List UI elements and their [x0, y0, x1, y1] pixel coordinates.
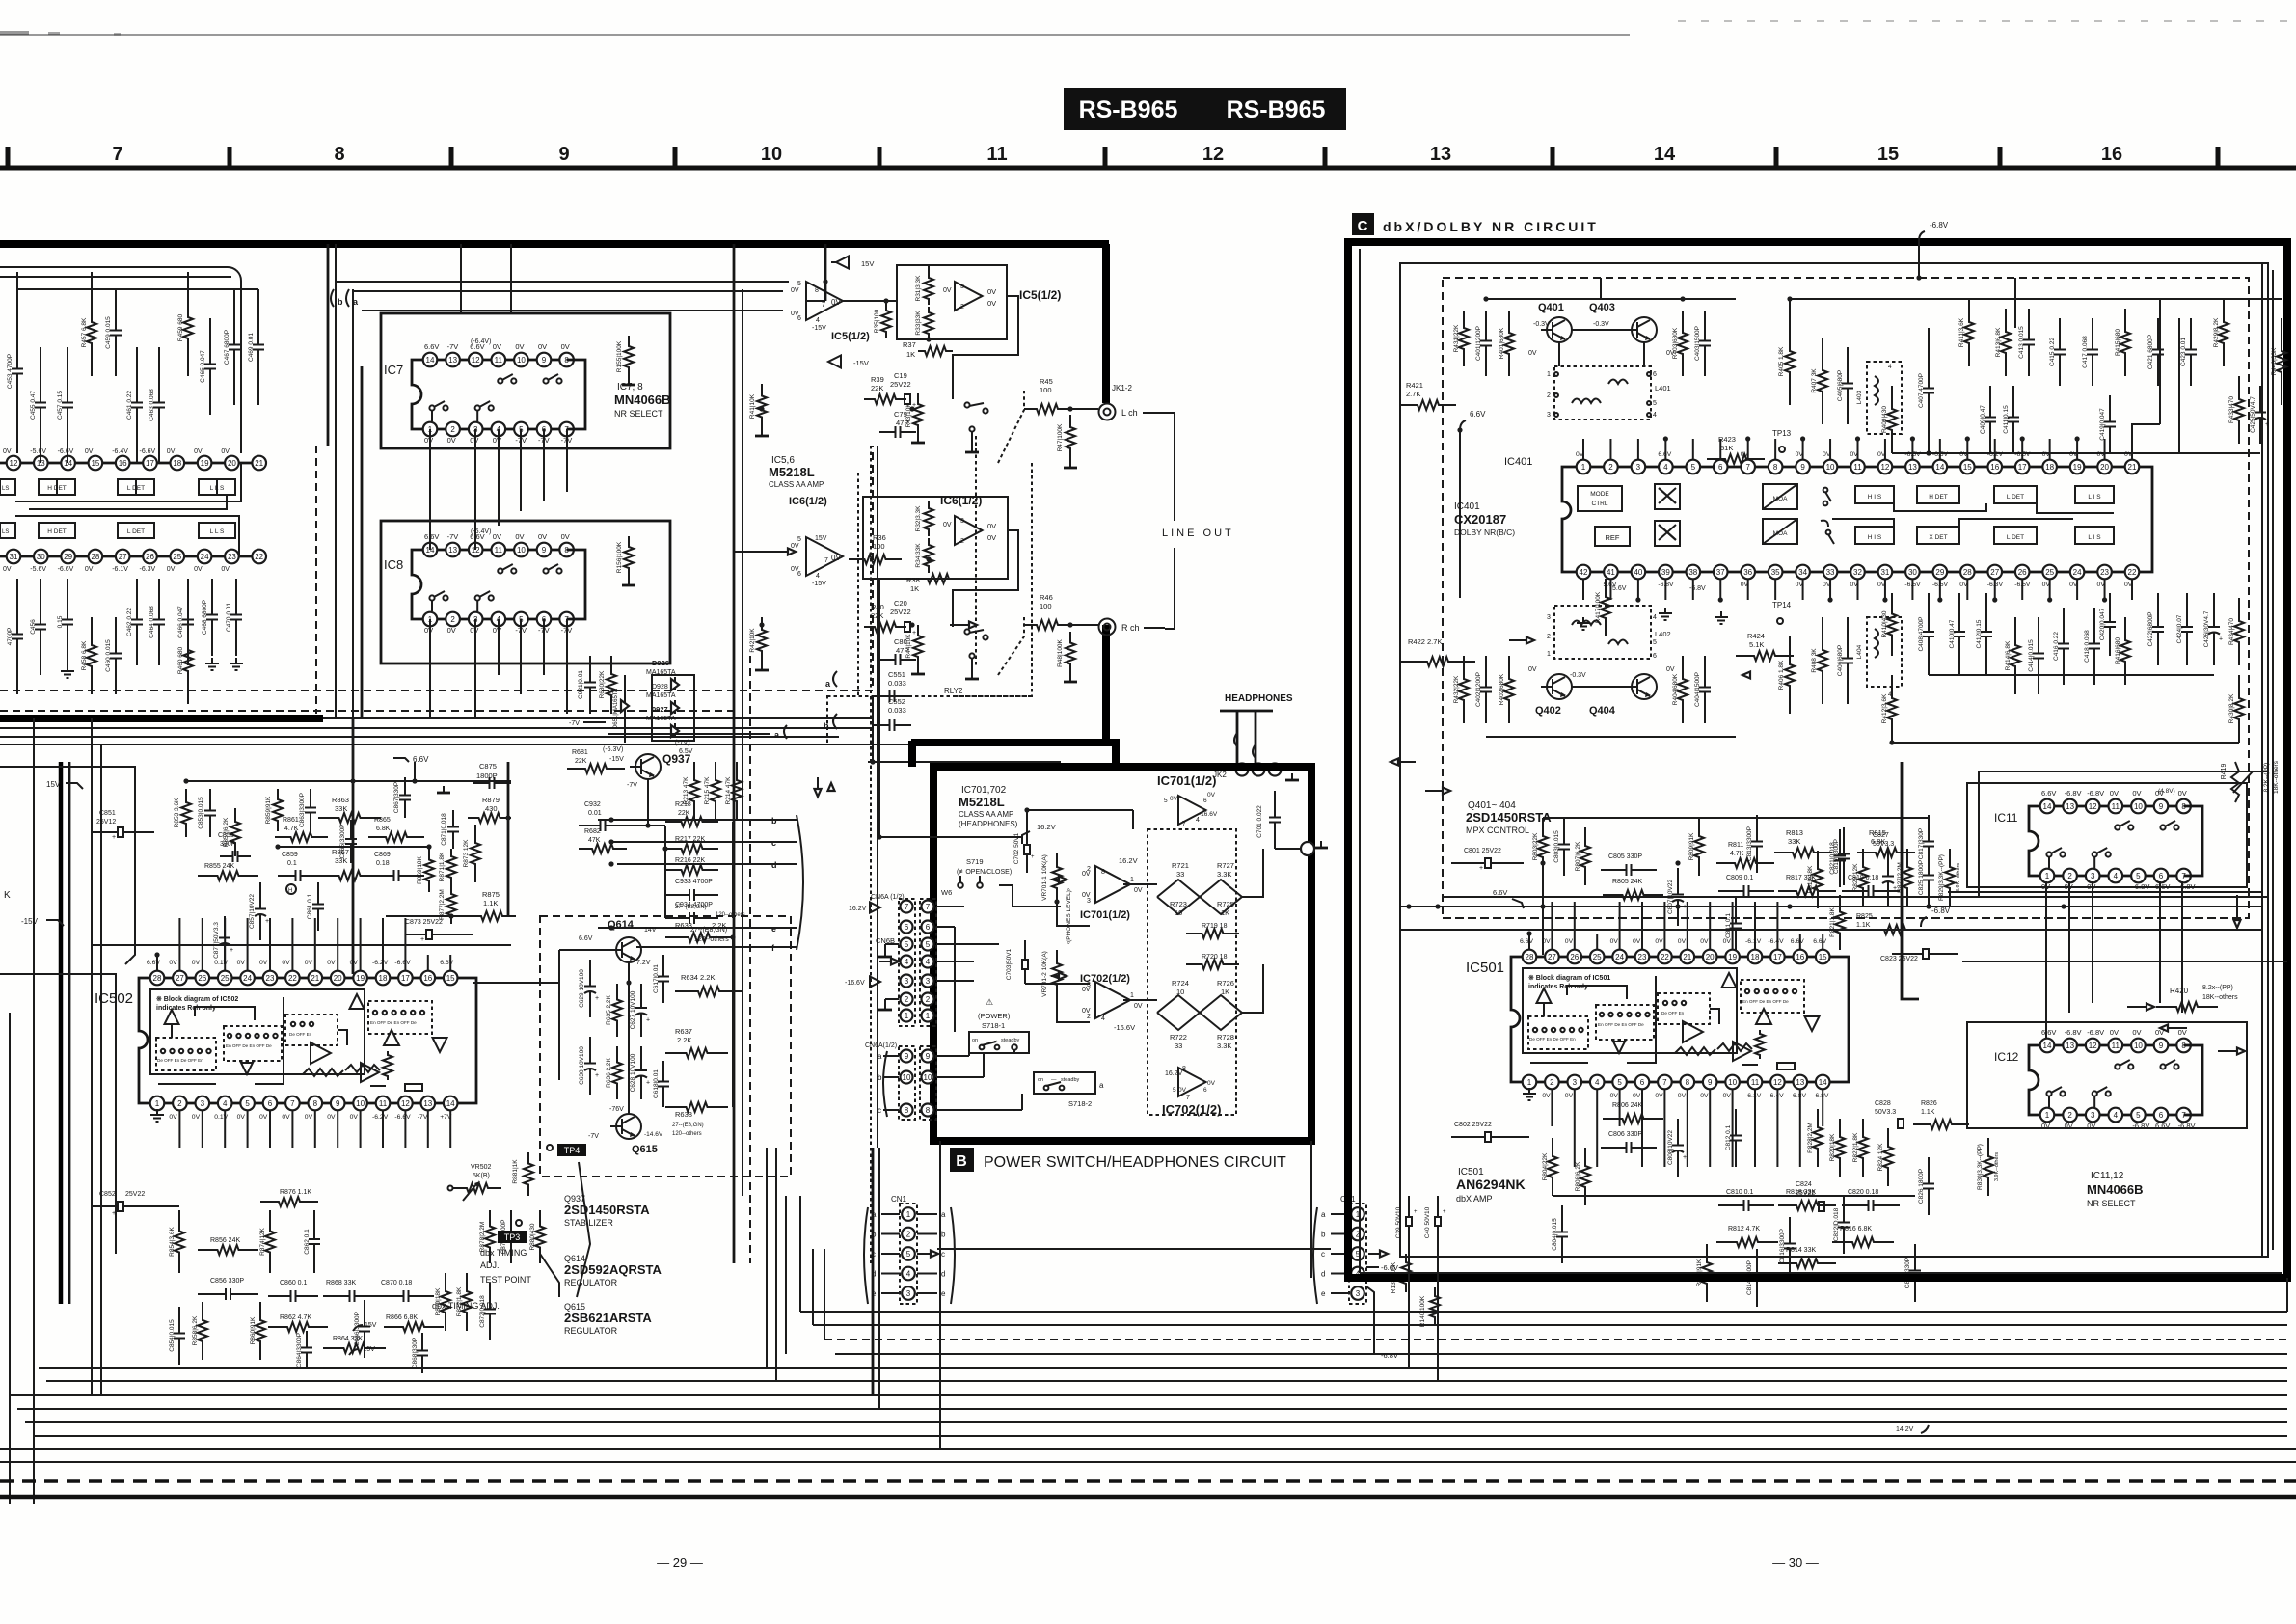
L402 inductors: [1572, 621, 1601, 626]
output node circle: [1301, 842, 1314, 855]
IC8 bottom wires: [429, 619, 431, 718]
heavy corner into B box: [911, 743, 1116, 767]
svg-text:0.01: 0.01: [588, 810, 602, 817]
svg-text:En OFF De En OFF De: En OFF De En OFF De: [370, 1020, 417, 1025]
resistor R823 12K: [1858, 849, 1868, 907]
capacitor C815 3300P: [1843, 827, 1845, 854]
svg-text:25V22: 25V22: [125, 1191, 145, 1198]
svg-text:C405|680P: C405|680P: [1837, 370, 1844, 401]
LLS box left upper: [0, 479, 15, 495]
heavy border bottom of section C: [1348, 1274, 2287, 1282]
capacitor C465 0.047: [209, 318, 211, 365]
svg-text:TP14: TP14: [1772, 601, 1792, 609]
svg-text:C467 6800P: C467 6800P: [224, 330, 230, 365]
IC401 bottom pin row 42-22: [1583, 571, 2132, 574]
svg-text:6: 6: [905, 923, 909, 932]
svg-text:5: 5: [797, 536, 801, 543]
IC11 wire box outer: [1967, 783, 2247, 887]
svg-text:C853|0.015: C853|0.015: [198, 797, 204, 829]
svg-text:R414|6.8K: R414|6.8K: [2005, 640, 2012, 670]
svg-text:27: 27: [1548, 953, 1556, 961]
svg-text:C459 0.015: C459 0.015: [105, 316, 112, 349]
svg-text:2: 2: [906, 1230, 911, 1238]
svg-text:R826: R826: [1921, 1100, 1937, 1107]
svg-text:C803|0.015: C803|0.015: [1553, 830, 1560, 863]
svg-text:R417|100K: R417|100K: [1595, 591, 1602, 623]
svg-text:6.6V: 6.6V: [1791, 938, 1804, 945]
svg-text:C403|1500P: C403|1500P: [1694, 326, 1701, 361]
svg-text:De OFF En De OFF En: De OFF En De OFF En: [157, 1058, 203, 1063]
svg-text:R724: R724: [1172, 979, 1189, 988]
svg-text:4: 4: [905, 958, 909, 966]
svg-text:6.6V: 6.6V: [147, 960, 160, 966]
svg-text:LS: LS: [2, 486, 9, 492]
svg-text:42: 42: [1580, 568, 1588, 577]
svg-text:C410|0.47: C410|0.47: [1949, 619, 1956, 648]
svg-text:0V: 0V: [987, 299, 996, 308]
svg-text:8: 8: [334, 144, 344, 165]
IC501 pin1 ground: [1528, 1088, 1530, 1094]
svg-text:-6.8V: -6.8V: [2065, 1028, 2082, 1037]
resistor R820 18K: [1835, 1119, 1845, 1177]
svg-text:0V: 0V: [943, 287, 952, 294]
svg-text:2: 2: [960, 538, 964, 545]
svg-text:R411|3.6K: R411|3.6K: [1958, 317, 1965, 347]
svg-text:0V: 0V: [987, 287, 996, 296]
capacitor C454 4700P: [16, 579, 18, 635]
svg-text:24: 24: [201, 553, 209, 561]
svg-text:21: 21: [2128, 463, 2137, 472]
dots on left bus: [608, 817, 613, 822]
svg-text:8: 8: [815, 287, 819, 294]
svg-text:RS-B965: RS-B965: [1227, 96, 1326, 123]
svg-text:3: 3: [960, 518, 964, 525]
svg-text:-16.6V: -16.6V: [1114, 1023, 1135, 1032]
svg-text:En OFF De En OFF De: En OFF De En OFF De: [1742, 999, 1789, 1004]
capacitor C862 0.1: [313, 1210, 315, 1239]
wire Q614 row: [473, 982, 559, 984]
svg-text:27: 27: [176, 974, 184, 983]
IC IC502 internal amp 5: [384, 1030, 399, 1045]
svg-text:C854|0.015: C854|0.015: [169, 1319, 176, 1352]
svg-text:TEST POINT: TEST POINT: [480, 1275, 531, 1285]
svg-text:C820 0.18: C820 0.18: [1848, 1189, 1878, 1196]
svg-text:C873 25V22: C873 25V22: [405, 919, 443, 926]
svg-text:IC6(1/2): IC6(1/2): [789, 496, 827, 507]
wire drop to IC7 box: [460, 244, 462, 313]
svg-text:0V: 0V: [2132, 789, 2141, 798]
svg-text:(-6.4V): (-6.4V): [471, 528, 491, 535]
svg-text:33: 33: [1176, 870, 1184, 879]
svg-text:12: 12: [1202, 144, 1224, 165]
L DET box lower: [118, 523, 154, 538]
scan artifact line top: [0, 34, 1630, 36]
svg-text:R855 24K: R855 24K: [204, 863, 234, 870]
svg-text:18: 18: [379, 974, 388, 983]
svg-text:-6.2V: -6.2V: [372, 1114, 389, 1121]
svg-text:18K--others: 18K--others: [2202, 994, 2238, 1001]
svg-text:0V: 0V: [194, 566, 203, 573]
svg-text:25V22: 25V22: [890, 608, 911, 616]
resistor R414 6.8K: [2011, 617, 2020, 694]
IC IC8 MN4066B body: [412, 550, 430, 619]
svg-text:28: 28: [153, 974, 162, 983]
IC IC7 top pins 14-8: [430, 359, 567, 362]
lower detector wires: [15, 516, 239, 556]
svg-text:RLY2: RLY2: [944, 687, 963, 695]
svg-text:6: 6: [1203, 798, 1207, 804]
capacitor C877 50V3.3: [224, 916, 226, 938]
svg-text:D928: D928: [652, 684, 668, 690]
capacitor C414 0.015: [2038, 617, 2039, 654]
L401 inductors: [1572, 399, 1601, 404]
svg-text:R432|22K: R432|22K: [1453, 675, 1460, 703]
svg-text:C802 25V22: C802 25V22: [1454, 1122, 1492, 1128]
svg-text:-7V: -7V: [447, 342, 459, 351]
IC IC502 internal switch group 2: [224, 1026, 282, 1061]
IC IC502 internal amp 3: [311, 1042, 331, 1064]
svg-text:41: 41: [1607, 568, 1615, 577]
svg-text:7: 7: [1182, 821, 1186, 827]
ruler line: [0, 166, 2296, 171]
svg-text:29: 29: [64, 553, 72, 561]
TP4 black tag: [557, 1144, 586, 1156]
svg-text:C40 50V10: C40 50V10: [1424, 1206, 1431, 1238]
svg-text:C864|3300P: C864|3300P: [296, 1333, 303, 1367]
IC IC8 top pins 14-8: [430, 549, 567, 552]
svg-text:Q615: Q615: [632, 1144, 658, 1155]
svg-text:C19: C19: [894, 371, 907, 380]
svg-text:5: 5: [1653, 400, 1657, 407]
svg-text:0V: 0V: [1542, 938, 1551, 945]
svg-text:25: 25: [173, 553, 181, 561]
svg-text:19: 19: [2073, 463, 2082, 472]
svg-text:C933 4700P: C933 4700P: [675, 879, 713, 885]
wire IC5 second stage to switch: [953, 296, 1018, 399]
svg-text:20: 20: [228, 459, 236, 468]
connector CP1 pins: [1351, 1207, 1364, 1221]
svg-text:C455 0.47: C455 0.47: [30, 391, 37, 420]
svg-text:R858|6.2K: R858|6.2K: [192, 1315, 199, 1345]
svg-text:C872|0.018: C872|0.018: [479, 1295, 486, 1328]
svg-text:R46: R46: [1040, 593, 1053, 602]
capacitor C818 330P: [1914, 1244, 1916, 1271]
resistor R406 1.8K: [1785, 636, 1795, 714]
H1S box lower: [1855, 527, 1894, 544]
resistor R871 1.8K: [446, 849, 456, 885]
resistor R880 430: [535, 1210, 545, 1263]
junction dots IC401 bottom row: [1635, 597, 1640, 602]
block B label square: [950, 1148, 974, 1172]
svg-text:50V3.3: 50V3.3: [1873, 841, 1894, 848]
svg-text:27: 27: [1990, 568, 1999, 577]
capacitor C468 6800P: [211, 579, 213, 615]
bus line 1: [800, 1311, 2287, 1313]
svg-text:14: 14: [2043, 802, 2052, 811]
svg-text:C407|4700P: C407|4700P: [1918, 373, 1925, 408]
wire right edge verticals: [2159, 299, 2161, 424]
svg-text:0V: 0V: [327, 960, 336, 966]
svg-text:25: 25: [221, 974, 230, 983]
svg-text:-15V: -15V: [609, 756, 624, 763]
IC IC12 bottom pins 1-7: [2047, 1114, 2184, 1117]
svg-text:+: +: [420, 936, 424, 943]
resistor R858 6.2K: [198, 1302, 207, 1360]
svg-text:3: 3: [1547, 614, 1551, 621]
svg-text:-6.8V: -6.8V: [1930, 221, 1949, 230]
svg-text:CN1: CN1: [891, 1195, 907, 1204]
IC IC502 internal wires: [195, 1007, 255, 1020]
svg-text:18K--others: 18K--others: [2273, 760, 2280, 794]
svg-text:C420|0.047: C420|0.047: [2099, 608, 2106, 640]
svg-text:16.2V: 16.2V: [849, 906, 867, 912]
svg-text:C462 0.22: C462 0.22: [126, 608, 133, 636]
svg-text:on: on: [972, 1038, 978, 1043]
svg-text:0V: 0V: [987, 522, 996, 530]
svg-text:MN4066B: MN4066B: [614, 392, 671, 407]
svg-text:C468 6800P: C468 6800P: [202, 600, 208, 635]
svg-text:-0.3V: -0.3V: [1533, 321, 1550, 328]
svg-text:d: d: [941, 1270, 945, 1279]
capacitor C411 0.15: [2012, 386, 2014, 418]
svg-text:-6.6V: -6.6V: [58, 566, 74, 573]
svg-text:M5218L: M5218L: [959, 795, 1005, 809]
IC IC501 internal wires: [1567, 986, 1627, 999]
svg-text:R413|6.8K: R413|6.8K: [1995, 327, 2002, 357]
resistor R404 680K: [1678, 656, 1688, 723]
IC IC7 MN4066B body: [412, 360, 430, 429]
svg-text:0V: 0V: [259, 960, 268, 966]
svg-text:5: 5: [1653, 639, 1657, 646]
svg-text:REGULATOR: REGULATOR: [564, 1278, 618, 1287]
svg-text:R460 680: R460 680: [177, 647, 184, 675]
svg-text:-6.8V: -6.8V: [1931, 907, 1951, 915]
svg-text:3: 3: [2091, 1111, 2095, 1120]
open arrow down right: [2236, 895, 2238, 920]
svg-text:12: 12: [1773, 1078, 1782, 1087]
LLS box lower: [199, 523, 235, 538]
svg-text:31: 31: [1880, 568, 1889, 577]
svg-text:R824 12K: R824 12K: [1877, 1143, 1884, 1172]
resistor R35 100: [881, 305, 891, 338]
node wires b-f: [598, 819, 767, 821]
svg-text:12: 12: [1880, 463, 1889, 472]
connector CN6 lower pins: [899, 1046, 915, 1120]
wire bundle verticals: [335, 244, 337, 718]
svg-text:4: 4: [1663, 463, 1668, 472]
svg-text:R867: R867: [332, 848, 349, 856]
svg-text:R430|8.2K: R430|8.2K: [2228, 693, 2235, 723]
IC IC8 internal switches: [498, 568, 502, 573]
resistor R43 10K: [913, 393, 923, 436]
svg-text:-16.6V: -16.6V: [1199, 811, 1218, 818]
svg-text:C464 0.068: C464 0.068: [149, 606, 155, 638]
svg-text:5: 5: [2136, 1111, 2141, 1120]
middle section left border: [733, 244, 736, 1263]
svg-text:6: 6: [1653, 653, 1657, 660]
op-amp IC701: [1095, 866, 1130, 903]
svg-text:R856 24K: R856 24K: [210, 1237, 240, 1244]
svg-text:19: 19: [1728, 953, 1737, 961]
svg-text:16.2V: 16.2V: [1119, 856, 1138, 865]
svg-text:2: 2: [905, 995, 909, 1004]
svg-text:(-6.3V): (-6.3V): [603, 746, 623, 753]
svg-text:2: 2: [2067, 872, 2072, 880]
svg-text:a: a: [1321, 1210, 1326, 1219]
svg-text:R429|8.2K: R429|8.2K: [2213, 317, 2220, 347]
svg-text:15V: 15V: [46, 780, 61, 789]
capacitor C470 0.01: [235, 579, 237, 615]
svg-text:25: 25: [1593, 953, 1602, 961]
capacitor C628 10V100: [640, 1046, 642, 1070]
svg-text:R408 3K: R408 3K: [1811, 648, 1818, 673]
resistor R408 3K: [1818, 617, 1827, 704]
svg-text:120--others: 120--others: [716, 912, 745, 918]
resistor R878 2.2M: [485, 1210, 495, 1263]
svg-text:+: +: [1031, 854, 1035, 860]
svg-text:C857|10V22: C857|10V22: [249, 894, 256, 929]
svg-text:18: 18: [173, 459, 181, 468]
bus line 2: [813, 1324, 2287, 1326]
svg-text:8: 8: [1101, 869, 1105, 876]
svg-text:-0.3V: -0.3V: [1570, 672, 1586, 679]
resistor R874 12K: [265, 1210, 275, 1273]
svg-text:a: a: [941, 1210, 946, 1219]
resistor R857 6.2K: [230, 808, 240, 856]
svg-text:H DET: H DET: [1929, 494, 1948, 501]
svg-text:R457 6.8K: R457 6.8K: [81, 317, 88, 347]
svg-text:c: c: [1321, 1250, 1325, 1259]
svg-text:22K: 22K: [575, 758, 587, 765]
capacitor C867 330P: [404, 777, 406, 796]
svg-text:-16.6V: -16.6V: [845, 980, 865, 987]
capacitor C467 6800P: [233, 289, 235, 345]
resistor R809 91K: [1694, 818, 1704, 876]
svg-text:12: 12: [10, 459, 18, 468]
svg-text:3: 3: [960, 284, 964, 290]
section C mid wire 2: [1401, 929, 2262, 931]
svg-text:C413 0.015: C413 0.015: [2018, 326, 2025, 359]
svg-text:6.6V: 6.6V: [424, 532, 439, 541]
capacitor C403 1500P: [1704, 311, 1706, 341]
svg-text:11: 11: [379, 1099, 388, 1108]
svg-text:on: on: [1038, 1077, 1043, 1083]
svg-text:C861 0.1: C861 0.1: [307, 893, 313, 919]
capacitor C423 0.01: [2190, 318, 2192, 350]
svg-text:2: 2: [1547, 634, 1551, 640]
second stage box IC6: [863, 497, 1008, 579]
IC IC501 internal switch group 1: [1528, 1016, 1588, 1049]
svg-text:C412|0.15: C412|0.15: [1976, 619, 1983, 648]
svg-text:R828|2.2M: R828|2.2M: [1807, 1123, 1814, 1153]
svg-text:19: 19: [356, 974, 365, 983]
resistor R34 33K: [924, 538, 933, 573]
svg-text:0V: 0V: [1723, 938, 1732, 945]
capacitor C421 6800P: [2157, 318, 2159, 350]
svg-text:R459 680: R459 680: [177, 314, 184, 342]
capacitor C406 680P: [1847, 617, 1849, 659]
left edge vertical wires: [33, 718, 35, 1504]
svg-text:15: 15: [446, 974, 455, 983]
svg-text:VR701-2 10K(A): VR701-2 10K(A): [1041, 951, 1048, 997]
upper row bus wires: [1790, 298, 2282, 300]
resistor R47 100K: [1066, 415, 1075, 461]
IC IC501 internal switch group 4: [1741, 980, 1804, 1013]
wire bus above IC7: [336, 281, 789, 283]
svg-text:16.2V: 16.2V: [1165, 1070, 1183, 1077]
svg-text:C470 0.01: C470 0.01: [226, 603, 232, 632]
IC7 outer wire box: [381, 313, 670, 448]
L DET box lower right: [1994, 527, 2037, 544]
svg-text:2SD1450RSTA: 2SD1450RSTA: [1466, 810, 1552, 825]
IC IC8 bottom pins 1-7: [430, 618, 567, 621]
svg-text:9: 9: [542, 356, 547, 365]
capacitor C461 0.22: [136, 347, 138, 403]
svg-text:+: +: [1683, 1154, 1687, 1161]
svg-text:L ch: L ch: [1121, 408, 1138, 418]
svg-text:C425|50V4.7: C425|50V4.7: [2250, 396, 2256, 433]
svg-text:0.1V: 0.1V: [214, 960, 228, 966]
svg-text:0V: 0V: [327, 1114, 336, 1121]
svg-text:4: 4: [1653, 412, 1657, 419]
svg-text:4: 4: [1888, 364, 1892, 370]
capacitor C457 0.15: [67, 347, 68, 403]
svg-text:7: 7: [905, 903, 909, 911]
svg-text:R424: R424: [1747, 632, 1765, 640]
svg-text:0V: 0V: [3, 566, 12, 573]
svg-text:17: 17: [401, 974, 410, 983]
svg-text:11: 11: [986, 144, 1007, 165]
svg-text:R854|3.6K: R854|3.6K: [169, 1227, 176, 1257]
IC IC501 internal amp 5: [1756, 1009, 1771, 1024]
resistor R434 470: [2234, 598, 2244, 665]
svg-text:3.9K--others: 3.9K--others: [1956, 863, 1961, 893]
svg-text:R810|91K: R810|91K: [1696, 1259, 1703, 1286]
svg-text:-15V: -15V: [361, 1346, 375, 1353]
svg-text:(≢OPEN/CLOSE): (≢OPEN/CLOSE): [957, 869, 1012, 876]
svg-text:9: 9: [336, 1099, 340, 1108]
resistor R819 18K: [1813, 851, 1823, 908]
svg-text:0V: 0V: [167, 448, 176, 455]
svg-text:C875: C875: [479, 762, 497, 771]
resistor R804 22K: [1548, 1138, 1557, 1196]
svg-text:10: 10: [517, 546, 526, 555]
svg-text:4: 4: [1196, 817, 1200, 824]
H DET box upper: [39, 479, 75, 495]
REF box: [1595, 527, 1630, 546]
section B verticals to bus: [939, 1141, 941, 1449]
svg-text:0V: 0V: [237, 960, 246, 966]
svg-text:20: 20: [334, 974, 342, 983]
svg-text:2: 2: [1087, 1014, 1091, 1020]
IC401 bottom pin stubs: [1582, 579, 1584, 600]
capacitor C857 10V22: [259, 882, 261, 909]
svg-text:L DET: L DET: [2007, 534, 2024, 541]
svg-text:R682: R682: [584, 828, 601, 835]
svg-text:DOLBY NR(B/C): DOLBY NR(B/C): [1454, 528, 1515, 537]
capacitor C453 4700P: [16, 289, 18, 369]
svg-text:※ Block diagram of IC501: ※ Block diagram of IC501: [1528, 974, 1610, 982]
svg-text:CLASS AA AMP: CLASS AA AMP: [769, 480, 824, 489]
svg-text:0V: 0V: [493, 436, 501, 445]
svg-text:16.2V: 16.2V: [1037, 823, 1056, 831]
svg-text:11: 11: [1853, 463, 1862, 472]
svg-text:R861: R861: [283, 817, 299, 824]
IC IC501 internal trim rect: [1777, 1063, 1795, 1069]
svg-text:7: 7: [822, 302, 825, 309]
svg-text:C810 0.1: C810 0.1: [1726, 1189, 1754, 1196]
svg-text:NR SELECT: NR SELECT: [2087, 1199, 2136, 1208]
